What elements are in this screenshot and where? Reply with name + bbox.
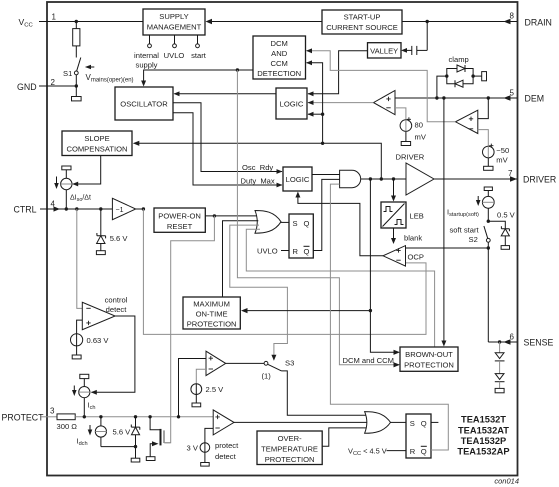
wire S3 output to OR bottom [282, 371, 369, 415]
arrow into DCM right edge (comp2) [306, 48, 312, 53]
triangle DRIVER [396, 153, 435, 196]
svg-text:−50: −50 [496, 146, 509, 155]
svg-text:RESET: RESET [167, 222, 193, 231]
wire maxon arrow branch [248, 310, 371, 312]
wire softstart to SENSE line [487, 248, 489, 342]
wire Idch return to zener foot [101, 446, 136, 448]
pin 7 DRIVER label [508, 169, 556, 185]
svg-text:TEMPERATURE: TEMPERATURE [261, 445, 318, 454]
wire slope compensation input from driver line [139, 143, 381, 179]
svg-text:DCM and CCM: DCM and CCM [343, 356, 394, 365]
arrow into LOGIC upper right edge (valley) [308, 91, 314, 96]
svg-text:OCP: OCP [408, 252, 424, 261]
wire POR output to OR gate [205, 215, 257, 217]
terminal internal supply [148, 35, 152, 48]
pin 1 VCC label [19, 13, 57, 29]
svg-text:ON-TIME: ON-TIME [196, 310, 228, 319]
source 3V [200, 443, 210, 466]
label UVLO at latch R [257, 247, 289, 256]
node clamp right [471, 74, 474, 77]
svg-text:(1): (1) [262, 371, 272, 380]
gate OR mid [255, 211, 281, 234]
switch S2 soft start [484, 226, 490, 248]
wire CTRL bus to control detect minus [77, 209, 83, 308]
wire to 0.5V zener [488, 221, 505, 229]
svg-text:internal: internal [134, 51, 159, 60]
wire protect detect output to OR bottom [234, 421, 369, 423]
resistor 300 ohm [57, 414, 75, 420]
current source Ich [79, 379, 90, 417]
wire supply management input from startup [207, 21, 323, 23]
diode SENSE D2 [495, 361, 505, 393]
block BROWN-OUT PROTECTION [400, 347, 458, 371]
node CTRL zener junction [99, 207, 102, 210]
svg-text:3: 3 [50, 407, 55, 416]
svg-text:0.63 V: 0.63 V [87, 336, 110, 345]
block POWER-ON RESET [154, 208, 205, 232]
zener 5.6V at PROTECT [131, 417, 140, 462]
svg-text:Osc_Rdy: Osc_Rdy [242, 163, 273, 172]
svg-text:S: S [293, 219, 298, 228]
wire driver line to LEB top [393, 179, 395, 197]
svg-text:BROWN-OUT: BROWN-OUT [405, 350, 453, 359]
node logic third input tap [321, 113, 324, 116]
svg-text:COMPENSATION: COMPENSATION [66, 145, 127, 154]
block OSCILLATOR [115, 87, 173, 120]
zener 5.6V at CTRL [96, 209, 105, 255]
svg-text:CTRL: CTRL [14, 205, 37, 215]
wire POR branch to MOSFET drain [165, 216, 214, 443]
diode SENSE D1 [495, 342, 505, 361]
comparator 2.5V [206, 351, 226, 375]
arrow DRAIN pin (into chip) [504, 19, 511, 25]
node driver line LEB tap [392, 177, 395, 180]
svg-text:TEA1532AP: TEA1532AP [457, 447, 509, 457]
wire latch Q stub [431, 421, 438, 423]
wire maxon input from driver line [370, 179, 394, 352]
wire LEB output to OCP [393, 228, 395, 239]
arrow into LOGIC mid bottom [295, 192, 300, 198]
wire LOGIC upper third input tap [308, 113, 323, 115]
svg-text:PROTECT: PROTECT [2, 412, 45, 422]
svg-text:TEA1532T: TEA1532T [461, 415, 506, 425]
pin 8 DRAIN label [510, 12, 552, 28]
svg-text:MANAGEMENT: MANAGEMENT [147, 23, 202, 32]
arrow into LOGIC mid (Duty_Max) [277, 183, 283, 188]
wire protect detect minus to 3V [205, 428, 213, 443]
arrow into brownout top [441, 341, 446, 347]
source 80mV [400, 117, 412, 145]
zener 0.5V [501, 226, 509, 249]
wire DCM arrow2 net [307, 63, 323, 144]
arrow DRIVER pin (out) [510, 176, 517, 182]
node protect zener junction [134, 415, 137, 418]
svg-text:VALLEY: VALLEY [370, 47, 398, 56]
label -50 mV [496, 146, 509, 165]
svg-text:SLOPE: SLOPE [84, 134, 109, 143]
pin 4 CTRL label [14, 200, 56, 215]
wire oscillator output Duty_Max [173, 113, 282, 185]
comparator OCP [383, 246, 406, 267]
svg-text:START-UP: START-UP [344, 13, 381, 22]
wire DCM and CCM net [237, 70, 394, 365]
arrow CTRL pin (into chip) [54, 206, 61, 211]
node DRAIN junction [426, 20, 429, 23]
svg-text:SUPPLY: SUPPLY [159, 12, 188, 21]
svg-text:OVER-: OVER- [278, 434, 303, 443]
svg-text:3 V: 3 V [187, 443, 199, 452]
clamp diode pair [447, 65, 473, 87]
arrow into LOGIC upper right edge (demag) [308, 100, 314, 105]
block LOGIC mid [283, 167, 312, 191]
svg-text:1: 1 [52, 13, 57, 22]
current source dIso/dt [61, 166, 72, 209]
svg-text:R: R [410, 447, 416, 456]
arrow dIso current direction [54, 177, 59, 190]
wire demag comp minus to 80mV [395, 108, 406, 120]
svg-text:DCM: DCM [271, 39, 288, 48]
block SUPPLY MANAGEMENT [143, 9, 205, 35]
arrow into LEB top [391, 196, 396, 202]
node protect comp25 junction [177, 415, 180, 418]
resistor startup bleeder [73, 22, 80, 58]
node driver line maxon tap [369, 177, 372, 180]
node DEM brownout junction [442, 96, 445, 99]
wire DEM pin line [395, 97, 517, 99]
block LEB [381, 202, 406, 228]
label internal supply [134, 51, 159, 70]
wire OR bottom output to latch S [391, 421, 407, 423]
wire PROTECT line across [75, 416, 213, 418]
arrow into dIso source [72, 182, 78, 187]
svg-text:TEA1532AT: TEA1532AT [458, 426, 509, 436]
block VALLEY [368, 43, 402, 58]
block DCM AND CCM DETECTION [253, 36, 306, 79]
terminal UVLO [173, 35, 177, 48]
block LOGIC upper [276, 88, 307, 119]
arrow into oscillator right edge [174, 91, 180, 96]
bus -1 output to OCP minus [143, 209, 426, 334]
wire oscillator output Osc_Rdy [173, 103, 282, 172]
block SLOPE COMPENSATION [62, 131, 132, 156]
arrow into brownout left (DCM and CCM) [394, 362, 401, 367]
arrow into VALLEY right edge [401, 48, 407, 53]
svg-text:DETECTION: DETECTION [257, 69, 301, 78]
arrow Ich current direction [72, 386, 77, 397]
svg-text:mV: mV [415, 133, 427, 142]
block START-UP CURRENT SOURCE [322, 10, 402, 34]
svg-text:PROTECTION: PROTECTION [404, 361, 454, 370]
wire DCM output to oscillator top [144, 70, 253, 81]
arrow SENSE pin (into chip) [504, 339, 511, 345]
svg-text:5.6 V: 5.6 V [110, 234, 129, 243]
gate AND [340, 170, 361, 187]
wire DRIVER pin line [434, 178, 517, 180]
svg-text:detect: detect [106, 305, 128, 314]
wire DEM net to brownout top [443, 98, 445, 342]
arrow into LOGIC upper right edge (third) [308, 112, 314, 117]
arrow Vmains actuation [86, 66, 95, 68]
source -50mV [483, 144, 495, 171]
svg-text:8: 8 [510, 12, 515, 21]
svg-text:2.5 V: 2.5 V [206, 385, 225, 394]
svg-text:protect: protect [215, 441, 239, 450]
wire comp25 minus to 2.5V source [196, 369, 206, 383]
arrow Idch current direction [88, 425, 93, 436]
node GND junction [75, 84, 78, 87]
wire LOGIC upper to oscillator [175, 93, 277, 95]
node VCC junction [75, 20, 78, 23]
arrow Istartup current direction [476, 196, 481, 206]
transistor discharge MOSFET [146, 417, 170, 461]
switch S3 [226, 361, 282, 371]
svg-text:LOGIC: LOGIC [286, 175, 310, 184]
wire OR mid output to latch S [281, 221, 289, 223]
wire OCP output to LOGIC mid bottom [298, 197, 383, 256]
svg-text:CCM: CCM [271, 59, 288, 68]
svg-text:control: control [105, 295, 128, 304]
wire demag comp output to LOGIC upper [308, 102, 374, 104]
wire comp2 plus to DEM [478, 98, 489, 119]
label TEA1532 types [457, 415, 509, 457]
svg-text:−1: −1 [116, 207, 124, 214]
node DEM comp2 junction [487, 96, 490, 99]
wire drain drop to capacitor [426, 22, 428, 51]
rail bar Ich [80, 374, 89, 378]
svg-text:UVLO: UVLO [164, 51, 185, 60]
wire slope compensation to dIso source [73, 156, 101, 185]
node clamp left [445, 74, 448, 77]
svg-text:DRIVER: DRIVER [523, 175, 556, 185]
svg-text:6: 6 [510, 333, 515, 342]
svg-text:R: R [293, 247, 299, 256]
gate OR bottom [365, 412, 391, 434]
node CTRL control-detect junction [75, 207, 78, 210]
block OVER-TEMPERATURE PROTECTION [257, 431, 322, 465]
wire startup to DRAIN pin [402, 21, 517, 23]
rail bar after clamp [473, 72, 486, 81]
switch S1 [63, 58, 81, 87]
wire comp25 plus to protect line [179, 359, 207, 417]
svg-text:OSCILLATOR: OSCILLATOR [120, 100, 168, 109]
wire OR mid input3 from S3 control net [230, 225, 288, 356]
source 0.63V [71, 334, 83, 359]
wire AND output driver line [361, 178, 406, 180]
label 80 mV [415, 121, 427, 142]
svg-text:blank: blank [404, 234, 422, 243]
node DCM-CCM bus tap [236, 68, 239, 71]
arrow LEB into OCP top [391, 238, 396, 244]
svg-text:Q: Q [421, 419, 427, 428]
node -1 output [142, 207, 145, 210]
svg-text:PROTECTION: PROTECTION [265, 455, 315, 464]
terminal start [196, 35, 200, 48]
arrow into brownout left (driver) [394, 350, 401, 355]
latch protection SR [406, 414, 431, 458]
arrow into Ich source [91, 390, 97, 395]
svg-text:LEB: LEB [410, 212, 424, 221]
svg-text:detect: detect [215, 452, 237, 461]
wire control detect output to Ich [92, 316, 135, 392]
node protect Idch junction [99, 415, 102, 418]
node maxon tap on vertical [369, 309, 372, 312]
ground symbol below S1 [72, 86, 82, 101]
svg-text:DEM: DEM [525, 94, 545, 104]
svg-text:MAXIMUM: MAXIMUM [193, 300, 230, 309]
label control detect [105, 295, 128, 314]
svg-text:CURRENT SOURCE: CURRENT SOURCE [326, 23, 398, 32]
wire -1 output junction [136, 208, 144, 210]
svg-text:DRAIN: DRAIN [525, 18, 552, 28]
capacitor valley to drain [406, 46, 428, 55]
wire latch Qbar to AND input3 [330, 184, 448, 450]
svg-text:5: 5 [510, 89, 515, 98]
comparator DEM level [456, 110, 478, 133]
arrow into DCM right edge (arrow2) [306, 60, 312, 65]
svg-text:mV: mV [496, 156, 508, 165]
svg-text:DRIVER: DRIVER [396, 153, 425, 162]
svg-text:Q: Q [304, 247, 310, 256]
comparator control detect [82, 302, 115, 329]
wire PROTECT pin line [41, 416, 57, 418]
svg-text:GND: GND [17, 82, 37, 92]
node SENSE diode junction [498, 340, 501, 343]
comparator protect detect [213, 410, 234, 435]
node driver line slope tap [380, 177, 383, 180]
svg-text:TEA1532P: TEA1532P [461, 436, 506, 446]
node softstart top [487, 220, 490, 223]
svg-text:Q: Q [304, 219, 310, 228]
arrow into slope compensation right edge [133, 141, 140, 146]
arrow into oscillator top [141, 81, 146, 87]
wire OR mid input4 from brownout net [246, 229, 434, 347]
svg-text:UVLO: UVLO [257, 247, 278, 256]
wire OCP plus to softstart node [406, 247, 489, 249]
svg-text:5.6 V: 5.6 V [113, 427, 132, 436]
node protect mosfet junction [148, 415, 151, 418]
pin 3 PROTECT label [2, 407, 56, 423]
wire overtemp output to OR bottom [322, 428, 368, 446]
svg-text:Duty_Max: Duty_Max [241, 176, 275, 185]
node protect Ich junction [83, 415, 86, 418]
label protect detect [215, 441, 239, 461]
amplifier -1 [112, 198, 135, 219]
wire LOGIC mid to AND [312, 174, 340, 176]
svg-text:supply: supply [136, 61, 158, 70]
label soft start S2 [450, 226, 480, 244]
svg-text:S: S [410, 419, 415, 428]
node slope line DCM tap [321, 142, 324, 145]
pin 6 SENSE label [510, 333, 554, 348]
node DEM clamp junction [435, 96, 438, 99]
node CTRL dIso junction [65, 207, 68, 210]
rail bar Istartup [484, 187, 492, 191]
wire VCC pin line [39, 21, 143, 23]
comparator demag [374, 91, 396, 115]
wire control detect plus to 0.63V [77, 320, 83, 334]
wire VALLEY output to LOGIC upper [308, 51, 368, 94]
arrow S3 actuation [271, 355, 276, 361]
current source Idch [95, 417, 106, 447]
node zener Idch junction [134, 445, 137, 448]
wire GND pin line [39, 85, 76, 87]
wire CTRL pin line [40, 208, 112, 210]
svg-text:80: 80 [415, 121, 423, 130]
block MAXIMUM ON-TIME PROTECTION [183, 297, 240, 329]
svg-text:clamp: clamp [449, 55, 469, 64]
svg-text:POWER-ON: POWER-ON [158, 212, 201, 221]
node OCP plus junction [487, 246, 490, 249]
source 2.5V [191, 384, 202, 407]
arrow into maxon right edge [241, 308, 248, 313]
pin 5 DEM label [510, 89, 545, 104]
wire comp2 minus to -50mV [478, 130, 489, 147]
svg-text:S2: S2 [469, 235, 478, 244]
svg-text:Q: Q [421, 447, 427, 456]
arrow DEM pin (into chip) [504, 95, 511, 101]
svg-text:AND: AND [271, 49, 288, 58]
wire OR mid input2 from MAXON [223, 221, 259, 297]
wire SENSE pin line [488, 341, 517, 343]
wire comp2 output to DCM detection [307, 51, 456, 122]
svg-text:7: 7 [508, 169, 513, 178]
svg-text:LOGIC: LOGIC [280, 100, 304, 109]
node POR output junction [213, 214, 216, 217]
arrow into LOGIC mid (Osc_Rdy) [277, 169, 283, 174]
latch UVLO SR [289, 214, 313, 258]
svg-text:con014: con014 [494, 477, 519, 486]
svg-text:start: start [191, 51, 207, 60]
svg-text:PROTECTION: PROTECTION [187, 320, 237, 329]
svg-text:0.5 V: 0.5 V [497, 211, 516, 220]
arrow into supply management right edge [206, 19, 213, 24]
pin 2 GND label [17, 78, 56, 92]
wire demag comp plus input from DEM [395, 97, 437, 99]
current source Istartup(soft) [482, 191, 494, 222]
svg-text:300 Ω: 300 Ω [57, 422, 78, 431]
svg-text:soft start: soft start [450, 226, 480, 235]
svg-text:S1: S1 [63, 69, 72, 78]
svg-text:SENSE: SENSE [524, 338, 554, 348]
wire latch Q-bar to AND input2 [313, 179, 339, 250]
svg-text:S3: S3 [285, 358, 294, 367]
wire clamp to DEM line [437, 76, 447, 98]
label VCC < 4.5 V [348, 447, 406, 458]
